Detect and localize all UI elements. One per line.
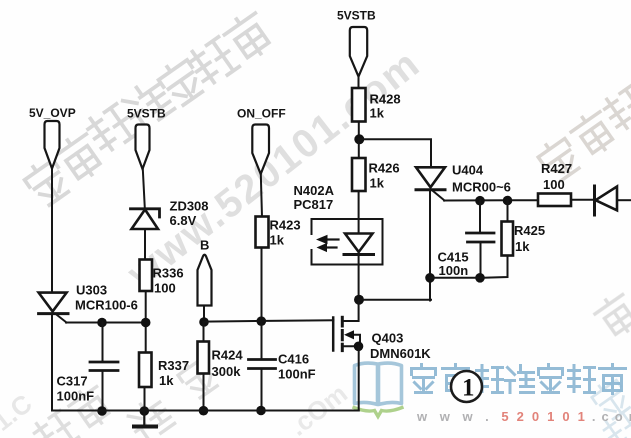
node junction R337 bottom / ground (140, 406, 150, 416)
wire gate bus to Q403 (204, 320, 334, 321)
svg-text:MCR00~6: MCR00~6 (452, 180, 511, 195)
svg-text:100: 100 (543, 177, 565, 192)
wire U303 gate bus (66, 322, 146, 324)
svg-text:100: 100 (154, 281, 176, 296)
resistor R424 300k (198, 342, 244, 380)
resistor R427 100 (538, 161, 595, 206)
svg-text:U404: U404 (452, 163, 484, 178)
optocoupler N402A PC817 (294, 183, 383, 265)
svg-text:R428: R428 (370, 92, 401, 107)
circled number 1 (451, 371, 482, 402)
capacitor C416 100nF (249, 321, 316, 411)
node junction C317 bottom on rail (97, 406, 107, 416)
node junction C317 top (97, 318, 107, 328)
thyristor U404 MCR00-6 (416, 163, 511, 201)
wire R428 to node (358, 122, 360, 140)
svg-text:100nF: 100nF (278, 367, 316, 382)
wire U404 gate bus (444, 199, 539, 201)
svg-text:1: 1 (462, 375, 475, 402)
svg-text:R425: R425 (514, 223, 545, 238)
zener diode ZD308 6.8V (131, 199, 209, 230)
svg-text:B: B (200, 238, 209, 253)
svg-text:5VSTB: 5VSTB (337, 9, 376, 23)
wire R337 to rail (144, 387, 146, 411)
wire Q403 source to rail (358, 346, 360, 410)
wire node to U404 anode (359, 139, 431, 167)
resistor R336 100 (140, 260, 184, 296)
node junction C416 bottom (256, 406, 266, 416)
node junction U404 leg / C415 rail (425, 273, 435, 283)
node junction R423 / C416 / bus (257, 316, 267, 326)
svg-text:5VSTB: 5VSTB (127, 107, 166, 121)
svg-text:300k: 300k (212, 364, 242, 379)
svg-text:R427: R427 (541, 161, 572, 176)
svg-text:N402A: N402A (294, 183, 335, 198)
svg-text:C416: C416 (278, 352, 309, 367)
svg-text:PC817: PC817 (294, 197, 334, 212)
svg-text:1k: 1k (270, 233, 285, 248)
wire node to U404 cathode leg (359, 299, 431, 301)
wire 5V_OVP to U303 anode (51, 169, 53, 294)
wire R424 to rail (203, 374, 205, 411)
node junction C415 top (475, 196, 485, 206)
wire B node down to R424 (203, 322, 205, 342)
svg-text:Q403: Q403 (372, 331, 404, 346)
svg-text:100nF: 100nF (57, 389, 95, 404)
svg-text:R424: R424 (212, 348, 244, 363)
capacitor C317 100nF (57, 323, 119, 412)
wire U303 cathode down to bottom rail (51, 314, 53, 411)
svg-text:1k: 1k (370, 106, 385, 121)
svg-text:U303: U303 (76, 283, 107, 298)
resistor R337 1k (139, 353, 189, 389)
node junction opto bottom / drain / U404 cathode (354, 295, 364, 305)
svg-text:DMN601K: DMN601K (370, 346, 431, 361)
transistor Q403 DMN601K (333, 300, 431, 361)
resistor R423 1k (256, 217, 301, 248)
svg-text:R426: R426 (369, 161, 400, 176)
svg-text:w w w . 5 2 0 1 0 1 . c o m: w w w . 5 2 0 1 0 1 . c o m (416, 409, 631, 424)
connector 5VSTB left (127, 107, 166, 170)
connector B (198, 238, 212, 306)
svg-text:R336: R336 (153, 266, 184, 281)
wire U404 cathode down (429, 190, 431, 301)
svg-text:6.8V: 6.8V (170, 213, 197, 228)
connector 5VSTB top (337, 9, 376, 77)
wire C415 bottom rail (430, 277, 480, 279)
resistor R426 1k (352, 139, 400, 191)
node junction R425 top (503, 196, 513, 206)
svg-text:C317: C317 (57, 374, 88, 389)
wire ON_OFF to R423 (261, 174, 262, 217)
resistor R425 1k (480, 201, 545, 278)
node junction R428 / R426 / U404 branch (354, 134, 364, 144)
wire R336 to R337 (145, 291, 147, 353)
svg-text:R423: R423 (270, 218, 301, 233)
capacitor C415 100n (438, 201, 495, 278)
svg-text:1k: 1k (159, 373, 174, 388)
svg-text:MCR100-6: MCR100-6 (75, 298, 138, 313)
diode D right (595, 186, 631, 215)
svg-text:ZD308: ZD308 (170, 199, 209, 214)
svg-text:ON_OFF: ON_OFF (237, 107, 286, 121)
node junction C415 bottom (475, 273, 485, 283)
wire B to node (203, 306, 205, 323)
node junction gate bus / R336 R337 (141, 318, 151, 328)
connector 5V_OVP (29, 106, 76, 169)
svg-text:R337: R337 (158, 358, 189, 373)
svg-text:1k: 1k (370, 176, 385, 191)
wire R423 to gate bus node (261, 248, 263, 322)
node junction B / R424 (199, 317, 209, 327)
connector ON_OFF (237, 107, 286, 175)
node junction R424 bottom (199, 406, 209, 416)
svg-text:5V_OVP: 5V_OVP (29, 106, 76, 120)
wire 5VSTB top to R428 (358, 77, 360, 89)
wire bottom rail (52, 410, 359, 412)
wire 5VSTB to zener (143, 169, 145, 208)
wire R426 to opto diode and down to drain node (358, 191, 360, 300)
svg-text:1k: 1k (515, 239, 530, 254)
thyristor U303 MCR100-6 (39, 283, 138, 323)
svg-text:100n: 100n (439, 263, 469, 278)
resistor R428 1k (352, 88, 401, 122)
ground (134, 411, 156, 427)
wire zener to R336 (144, 229, 146, 260)
